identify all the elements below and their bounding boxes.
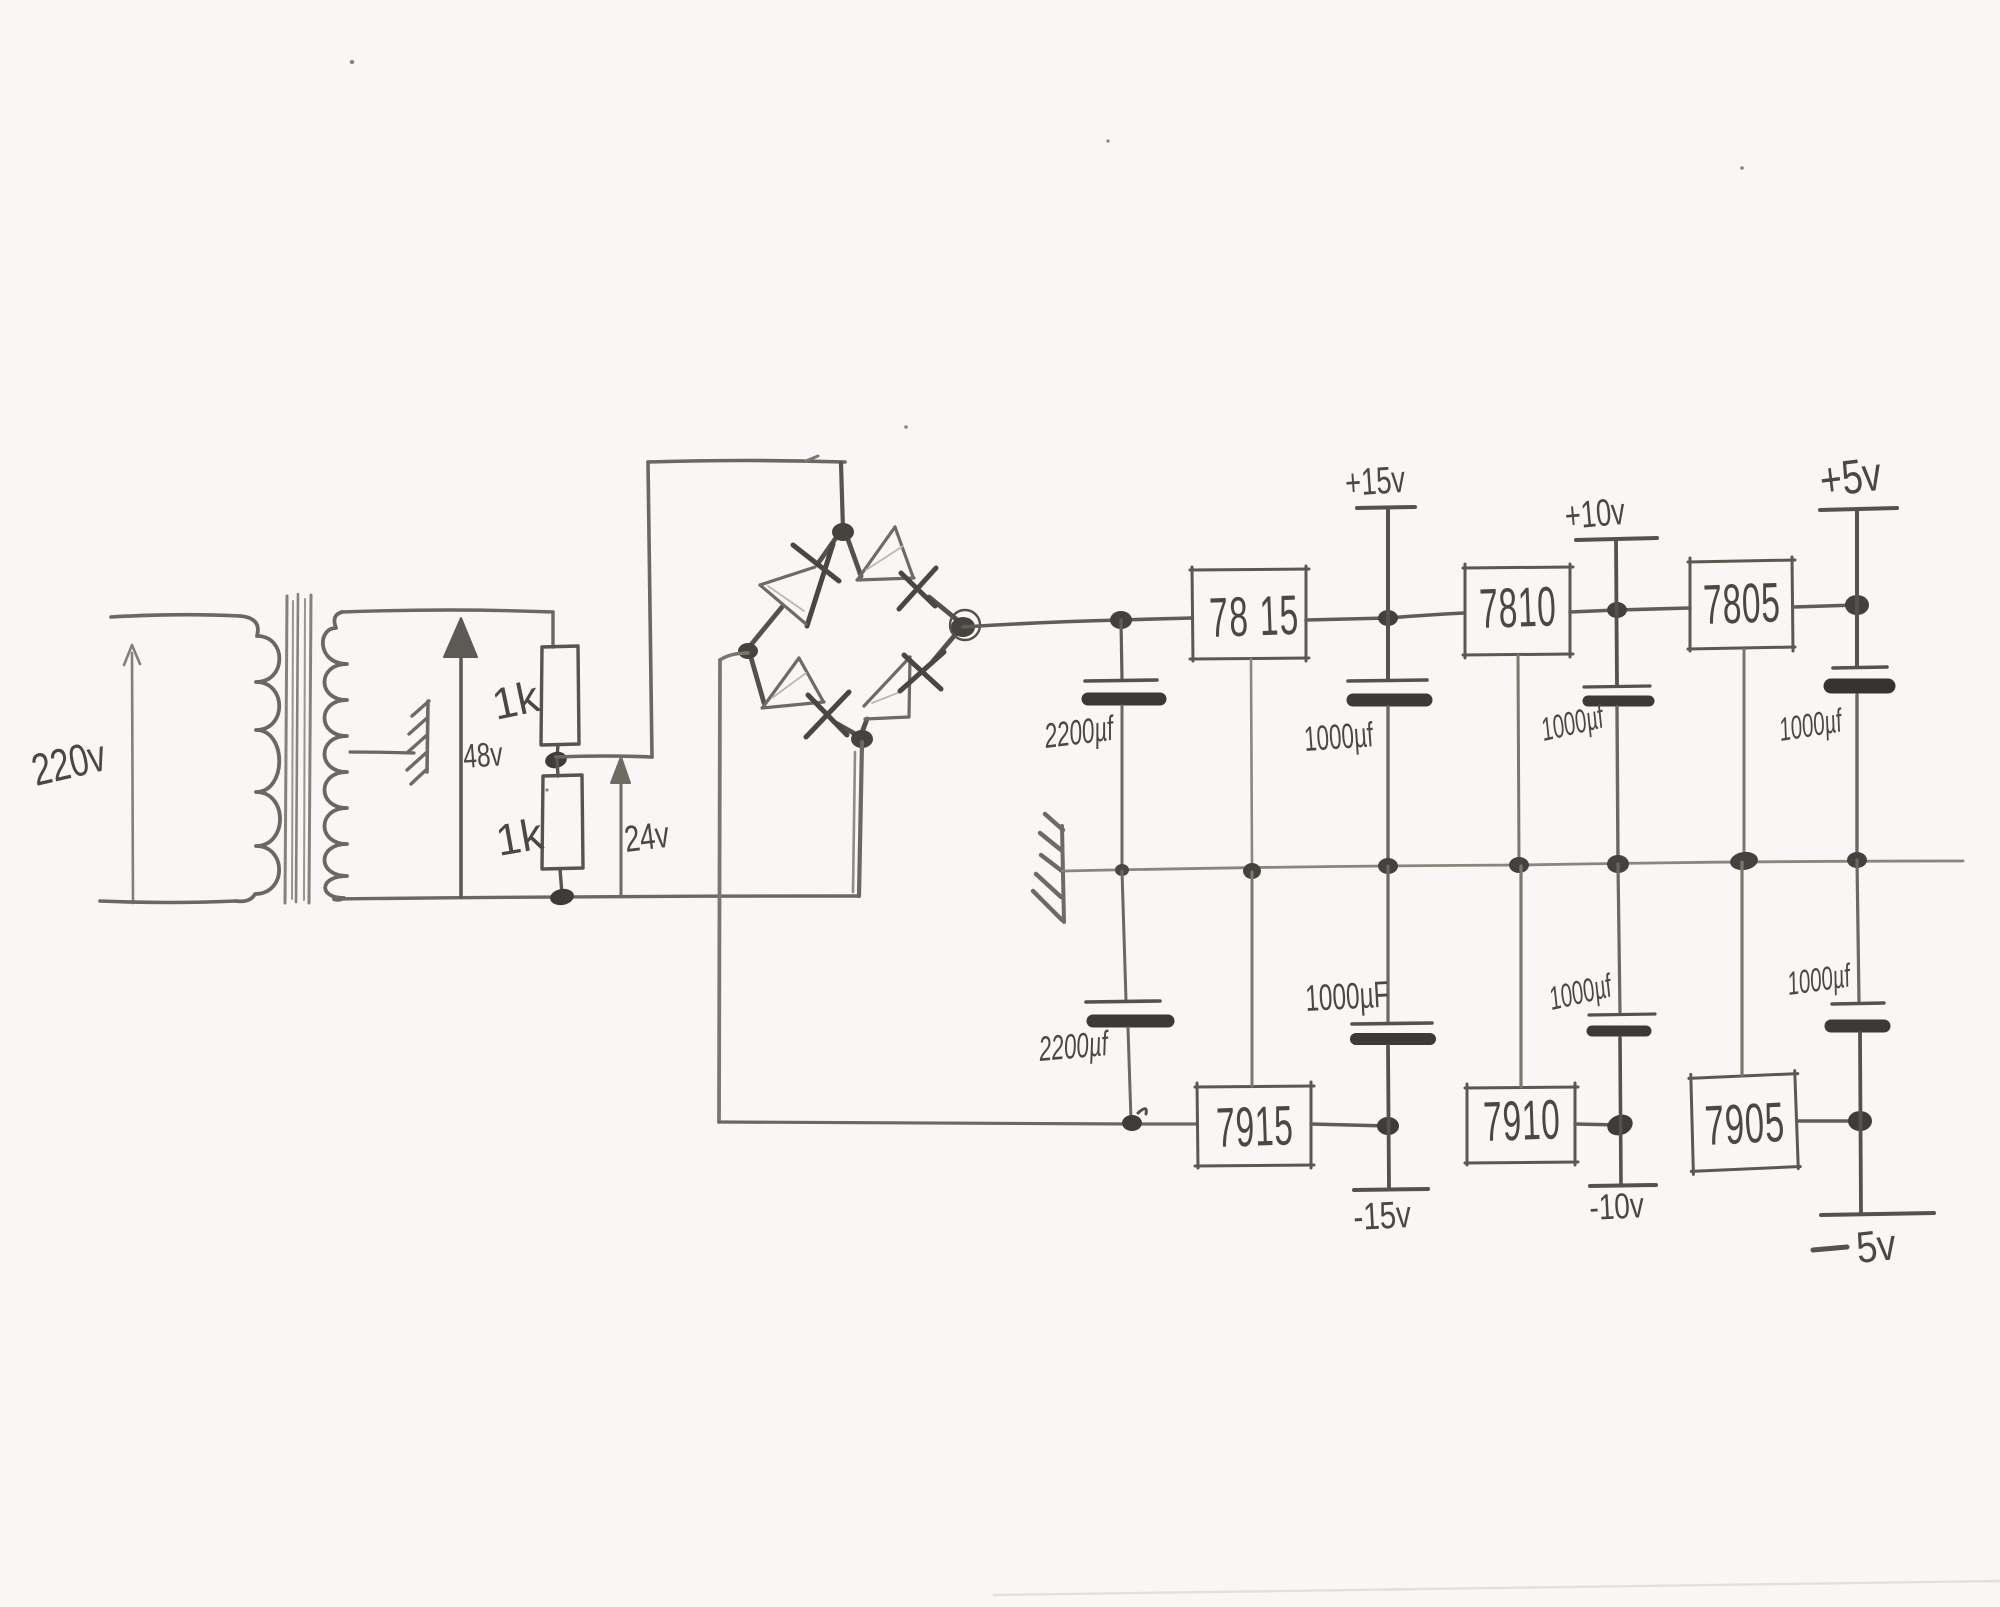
scan artifact line bottom <box>993 1581 2000 1595</box>
wire C6 lead from ground rail <box>1386 866 1389 1022</box>
node -5V label <box>1813 1247 1847 1250</box>
wire negative riser down <box>719 660 720 1122</box>
-5V terminal bar <box>1821 1213 1934 1215</box>
node -15V junction <box>1377 1117 1399 1135</box>
node ground junction C4 <box>1847 852 1867 868</box>
svg-text:78 15: 78 15 <box>1208 583 1300 649</box>
capacitor C5 2200uF plates <box>1086 1001 1160 1002</box>
+15V terminal bar <box>1357 507 1415 508</box>
wire R1 to node A <box>557 745 558 757</box>
ground symbol (center tap) <box>407 701 429 784</box>
capacitor C8 1000uF plates <box>1832 1003 1884 1004</box>
regulator U2 7810 box <box>1463 564 1573 658</box>
wire +15V stub <box>1386 510 1390 679</box>
diode bridge arm bottom-right <box>861 719 867 735</box>
node ground junction 7805 <box>1729 850 1759 872</box>
wire bridge left to negative riser <box>720 653 748 660</box>
node A junction dot <box>543 750 568 771</box>
node positive rail junction at C1 <box>1110 611 1132 629</box>
wire 220V measuring arrow <box>124 645 140 903</box>
wire 7910 ground pin <box>1519 866 1522 1087</box>
wire center tap <box>350 752 414 753</box>
wire C3 to ground rail <box>1617 707 1618 863</box>
svg-text:7805: 7805 <box>1702 570 1781 636</box>
diode bridge arm top-right <box>846 534 861 576</box>
regulator U6 7905 box <box>1689 1071 1801 1175</box>
-15V terminal bar <box>1354 1189 1428 1190</box>
+10V terminal bar <box>1576 538 1657 540</box>
node +5V junction <box>1845 595 1869 615</box>
diode D1 cathode cross <box>793 544 839 626</box>
wire down to bridge top <box>841 463 843 530</box>
regulator U3 7805 box <box>1688 557 1795 651</box>
svg-text:+15v: +15v <box>1344 459 1407 506</box>
wire C5 lead from ground rail <box>1122 871 1126 1000</box>
svg-text:1000µf: 1000µf <box>1303 715 1375 759</box>
wire C1 to ground rail <box>1121 706 1124 869</box>
capacitor C4 1000uF plates <box>1833 667 1887 668</box>
wire 7810 ground pin <box>1518 655 1519 863</box>
diode D4 cathode cross <box>900 652 944 691</box>
wire primary top lead <box>111 615 240 617</box>
svg-text:24v: 24v <box>622 813 672 860</box>
diode D4 triangle <box>864 657 910 719</box>
node ground junction 7815 <box>1243 863 1261 879</box>
wire -5V stub <box>1860 1033 1861 1212</box>
node +15V junction <box>1378 610 1398 626</box>
transformer T1 primary winding <box>236 616 280 901</box>
wire 7815 output <box>1306 613 1464 620</box>
wire C8 lead from ground rail <box>1857 860 1859 1002</box>
wire ground rail <box>1063 861 1963 871</box>
wire 7805 ground pin <box>1743 649 1746 860</box>
wire 48V measuring arrow <box>444 618 477 897</box>
wire node A to riser <box>556 756 652 757</box>
node B junction dot <box>549 887 575 907</box>
svg-text:+10v: +10v <box>1563 491 1627 539</box>
wire 24V measuring arrow <box>611 757 630 896</box>
node bridge left junction <box>738 643 758 659</box>
node bridge bottom junction <box>851 730 873 748</box>
diode D3 cathode cross <box>806 692 849 737</box>
wire bridge bottom down to secondary lead <box>859 742 862 896</box>
capacitor C2 1000uF plates <box>1348 680 1427 681</box>
ground symbol (main) <box>1033 814 1064 922</box>
capacitor C6 1000uF plates <box>1352 1023 1432 1024</box>
node negative rail junction C5 <box>1122 1115 1142 1131</box>
svg-text:-15v: -15v <box>1352 1194 1412 1239</box>
wire 7915 ground pin <box>1251 872 1254 1086</box>
wire 7810 output <box>1570 608 1690 612</box>
wire primary bottom lead <box>100 901 236 903</box>
svg-text:7810: 7810 <box>1478 574 1557 640</box>
regulator U5 7910 box <box>1465 1083 1578 1165</box>
node ground junction C1 <box>1115 864 1129 876</box>
wire -15V stub <box>1388 1046 1389 1188</box>
capacitor C3 1000uF plates <box>1584 686 1650 687</box>
wire R2 to node B <box>560 869 562 894</box>
wire 7905 ground pin <box>1740 862 1743 1075</box>
wire C5 to negative rail <box>1128 1028 1131 1120</box>
wire C2 to ground rail <box>1386 707 1389 866</box>
transformer T1 secondary winding <box>323 612 347 900</box>
node ground junction C3 <box>1607 855 1629 873</box>
-10V terminal bar <box>1590 1185 1656 1186</box>
node -5V junction <box>1848 1111 1872 1131</box>
wire 7915 output <box>1311 1124 1388 1126</box>
svg-text:7910: 7910 <box>1482 1087 1561 1153</box>
+5V terminal bar <box>1820 508 1897 510</box>
wire 7805 output <box>1793 605 1857 607</box>
wire 7905 output <box>1797 1119 1860 1122</box>
wire top lead down to R1 <box>551 612 554 647</box>
diode D3 triangle <box>762 658 824 708</box>
node -10V junction <box>1604 1111 1635 1139</box>
wire positive rail: bridge to 7815 <box>963 618 1192 627</box>
node bridge top junction <box>832 523 854 541</box>
regulator U4 7915 box <box>1195 1082 1314 1168</box>
svg-text:7915: 7915 <box>1215 1093 1294 1159</box>
resistor R1 1K body <box>541 646 579 745</box>
diode D2 triangle <box>857 527 914 580</box>
node bridge right junction <box>951 617 975 637</box>
diode D1 triangle <box>760 567 815 624</box>
wire +5V stub <box>1855 511 1859 666</box>
svg-text:2200µf: 2200µf <box>1037 1024 1112 1069</box>
node ground junction C2 <box>1378 858 1398 874</box>
regulator U1 7815 box <box>1190 566 1309 661</box>
wire secondary bottom lead to bridge <box>334 896 858 899</box>
wire C4 to ground rail <box>1855 695 1858 859</box>
svg-text:1k: 1k <box>492 809 547 865</box>
svg-text:5v: 5v <box>1854 1219 1899 1272</box>
node ground junction 7810 <box>1509 857 1529 873</box>
wire secondary top lead <box>342 610 553 612</box>
diode D2 cathode cross <box>899 568 936 609</box>
wire top loop across <box>648 461 845 463</box>
transformer core laminations <box>285 594 311 903</box>
wire 7815 ground pin <box>1251 659 1252 870</box>
svg-text:-10v: -10v <box>1588 1185 1645 1228</box>
node 220V input label <box>27 731 110 796</box>
wire riser up <box>648 462 652 757</box>
diode bridge arm top-left <box>819 535 838 562</box>
svg-text:+5v: +5v <box>1817 447 1885 508</box>
capacitor C1 2200uF plates <box>1085 680 1157 681</box>
wire 7910 output <box>1575 1124 1620 1125</box>
svg-text:7905: 7905 <box>1703 1090 1786 1157</box>
diode bridge arm bottom-left <box>750 654 764 703</box>
wire negative rail to 7915 <box>719 1122 1197 1124</box>
resistor R2 1K body <box>542 775 583 869</box>
wire node A to R2 <box>557 760 558 776</box>
svg-text:48v: 48v <box>462 735 504 776</box>
wire +10V stub <box>1616 541 1617 685</box>
node +10V junction <box>1607 602 1627 618</box>
capacitor C7 1000uF plates <box>1589 1014 1655 1015</box>
wire -10V stub <box>1620 1038 1621 1184</box>
svg-text:1000µF: 1000µF <box>1304 974 1389 1020</box>
capacitor C1 2200uF lead <box>1121 620 1122 679</box>
wire C7 lead from ground rail <box>1618 864 1620 1013</box>
